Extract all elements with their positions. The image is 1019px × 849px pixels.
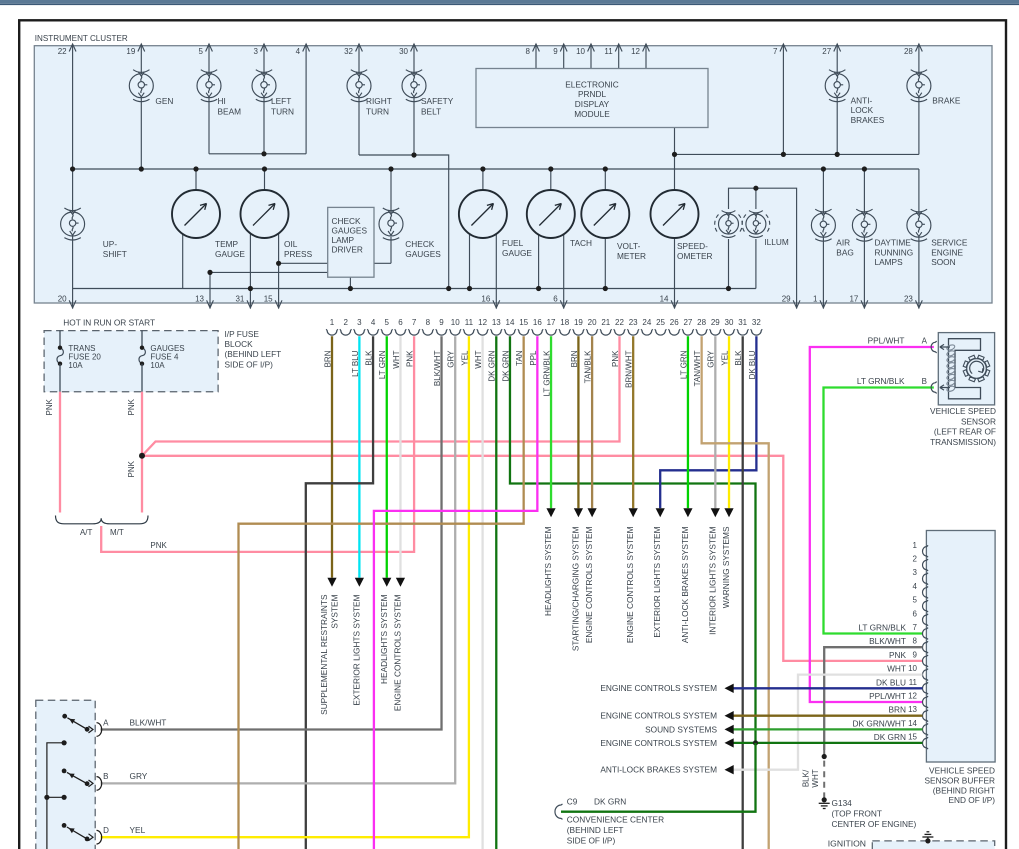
buffer pin 9 arc xyxy=(923,655,929,667)
junction driver / bottom bus xyxy=(348,286,353,291)
svg-text:2: 2 xyxy=(343,318,348,327)
wire PNK from brace to cluster pin 7 xyxy=(101,336,414,552)
connector pin 18 arc xyxy=(559,329,571,335)
connector pin 23 arc xyxy=(627,329,639,335)
buffer pin 8 arc xyxy=(922,641,928,653)
svg-text:EXTERIOR LIGHTS SYSTEM: EXTERIOR LIGHTS SYSTEM xyxy=(652,526,662,637)
wire DK GRN to C9 convenience center xyxy=(561,743,756,812)
svg-text:30: 30 xyxy=(725,318,734,327)
svg-text:B: B xyxy=(103,772,108,781)
cluster bottom pin 15 arrow xyxy=(275,300,282,308)
cluster top pin 32 arrow xyxy=(356,44,363,52)
svg-text:14: 14 xyxy=(660,294,669,303)
wire OIL PRESS to bus and pin31 xyxy=(249,234,251,309)
lamp RIGHT TURN xyxy=(347,70,371,102)
wire WHT pin12 to bottom xyxy=(481,336,483,849)
lamp HI BEAM xyxy=(197,70,221,102)
brace A/T M/T xyxy=(56,516,149,524)
sensor pin B internal arrow xyxy=(940,385,950,390)
svg-text:PPL/WHT: PPL/WHT xyxy=(869,691,906,701)
svg-text:16: 16 xyxy=(533,318,542,327)
wire GAUGES fuse lower xyxy=(141,364,143,392)
wire PNK from GAUGES fuse to M/T brace xyxy=(141,392,143,513)
wire TACH to pin6 xyxy=(563,234,565,309)
svg-text:24: 24 xyxy=(642,318,651,327)
svg-text:19: 19 xyxy=(574,318,583,327)
wire bus to TEMP GAUGE xyxy=(195,169,197,190)
wire ILLUM right lamp bottom xyxy=(755,239,757,289)
svg-text:DRIVER: DRIVER xyxy=(332,245,363,255)
svg-text:3: 3 xyxy=(254,47,259,56)
switch D xyxy=(62,823,67,828)
wire CHECK GAUGES lamp to driver box xyxy=(374,262,391,264)
switch common bus xyxy=(47,743,64,849)
connector pin 6 arc xyxy=(395,329,407,335)
buffer pin 13 arc xyxy=(922,710,928,722)
svg-text:4: 4 xyxy=(371,318,376,327)
box I/P FUSE BLOCK (dashed) xyxy=(44,331,218,392)
svg-text:PRNDL: PRNDL xyxy=(578,89,607,99)
svg-text:SPEED-: SPEED- xyxy=(677,241,708,251)
svg-text:ENGINE CONTROLS SYSTEM: ENGINE CONTROLS SYSTEM xyxy=(584,526,594,643)
cluster bottom pin 1 arrow xyxy=(820,300,827,308)
svg-text:LEFT: LEFT xyxy=(271,96,291,106)
svg-text:2: 2 xyxy=(913,555,918,564)
junction SAFETY BELT wire xyxy=(411,152,416,157)
cluster top pin 11 arrow xyxy=(615,44,622,52)
wire TRANS fuse lower xyxy=(59,364,61,392)
arrow to ENGINE CONTROLS SYSTEM xyxy=(396,578,405,587)
wire BRN pin1 to supplemental restraints xyxy=(331,336,333,578)
svg-text:8: 8 xyxy=(913,637,918,646)
svg-text:12: 12 xyxy=(908,692,917,701)
wire LT GRN/BLK pin17 to headlights system xyxy=(550,336,552,508)
svg-text:28: 28 xyxy=(904,47,913,56)
wire PRNDL pin 10 xyxy=(590,44,592,69)
wire pin28 through BRAKE lamp xyxy=(918,44,920,154)
junction AIR BAG / main bus xyxy=(821,166,826,171)
svg-text:25: 25 xyxy=(656,318,665,327)
gauge SPEEDOMETER xyxy=(651,190,699,238)
wire bus through DAYTIME RUNNING LAMPS to pin17 xyxy=(863,169,865,309)
wire RIGHT TURN / SAFETY BELT join xyxy=(359,155,449,289)
wire BRN/WHT pin23 to engine controls system xyxy=(632,336,634,508)
svg-text:FUEL: FUEL xyxy=(502,238,524,248)
switch A output connector xyxy=(89,726,94,733)
lamp ANTI-LOCK BRAKES xyxy=(825,70,849,102)
vehicle speed sensor gear xyxy=(963,355,990,382)
connector pin 22 arc xyxy=(614,329,626,335)
gauge OIL PRESS xyxy=(241,190,289,238)
wire BLK pin4 down left edge xyxy=(306,336,373,849)
svg-text:HI: HI xyxy=(218,96,226,106)
switch A xyxy=(62,714,67,719)
dashed arcs ILLUM right xyxy=(742,215,746,234)
svg-text:SOON: SOON xyxy=(931,257,955,267)
svg-text:17: 17 xyxy=(849,294,858,303)
wire pin13 to check gauges lamp driver xyxy=(210,271,328,273)
wire FUEL GAUGE to bottom bus xyxy=(469,234,471,289)
svg-text:A/T: A/T xyxy=(80,528,93,537)
gauge FUEL GAUGE xyxy=(459,190,507,238)
sensor pin B arc xyxy=(931,382,937,394)
wire PNK splice to buffer pin 9 xyxy=(142,456,923,661)
svg-text:EXTERIOR LIGHTS SYSTEM: EXTERIOR LIGHTS SYSTEM xyxy=(351,594,361,705)
svg-text:RIGHT: RIGHT xyxy=(366,96,392,106)
svg-text:32: 32 xyxy=(344,47,353,56)
connector pin 32 arc xyxy=(751,329,763,335)
svg-text:ENGINE CONTROLS SYSTEM: ENGINE CONTROLS SYSTEM xyxy=(600,683,717,693)
wire PRNDL output / pin7 / anti-lock / brake join xyxy=(675,153,919,155)
svg-text:23: 23 xyxy=(904,294,913,303)
arrow to HEADLIGHTS SYSTEM xyxy=(546,508,555,517)
svg-text:IGNITION: IGNITION xyxy=(828,838,866,848)
svg-text:PNK: PNK xyxy=(45,398,54,415)
svg-text:19: 19 xyxy=(126,47,135,56)
junction BLK/WHT splice xyxy=(822,754,827,759)
svg-text:8: 8 xyxy=(426,318,431,327)
box IGNITION (dashed) xyxy=(872,841,994,849)
junction VOLT / main bus xyxy=(603,166,608,171)
svg-text:27: 27 xyxy=(683,318,692,327)
buffer pin 1 arc xyxy=(922,545,928,557)
wire CHECK GAUGES lamp lower xyxy=(390,237,392,263)
junction safety-belt branch / bottom bus xyxy=(446,286,451,291)
ground G134 symbol xyxy=(819,803,830,808)
svg-text:BRAKES: BRAKES xyxy=(851,115,885,125)
instrument cluster box xyxy=(34,46,992,303)
wire TACH to bottom bus xyxy=(538,234,540,289)
lamp DAYTIME RUNNING LAMPS xyxy=(852,209,876,241)
svg-text:C9: C9 xyxy=(567,797,578,807)
wire ILLUM left lamp bottom xyxy=(728,239,730,289)
wire pin27 through ANTI-LOCK BRAKES lamp xyxy=(836,44,838,154)
svg-text:18: 18 xyxy=(560,318,569,327)
junction at G134 xyxy=(822,797,827,802)
svg-text:CONVENIENCE CENTER: CONVENIENCE CENTER xyxy=(567,815,664,825)
svg-text:1: 1 xyxy=(330,318,335,327)
svg-text:27: 27 xyxy=(822,47,831,56)
wire bus end through SERVICE ENGINE SOON to pin23 xyxy=(918,169,920,309)
lamp ILLUM left xyxy=(719,211,739,238)
wire LT GRN/BLK sensor B to buffer pin 7 xyxy=(824,388,934,634)
arrow to EXTERIOR LIGHTS SYSTEM xyxy=(656,508,665,517)
wire bus to OIL PRESS xyxy=(264,169,266,190)
connector pin 14 arc xyxy=(504,329,516,335)
junction LEFT TURN / pin4 wire xyxy=(261,151,266,156)
connector pin 15 arc xyxy=(518,329,530,335)
wire VOLTMETER to bottom bus xyxy=(604,238,606,289)
wire GRY pin29 to interior lights system xyxy=(714,336,716,508)
cluster bottom pin 23 arrow xyxy=(916,300,923,308)
svg-text:BLOCK: BLOCK xyxy=(225,339,254,349)
svg-text:10: 10 xyxy=(908,664,917,673)
wire pin3 through LEFT TURN xyxy=(263,44,265,154)
svg-text:DK GRN: DK GRN xyxy=(874,732,906,742)
svg-text:TEMP: TEMP xyxy=(215,239,239,249)
connector pin 5 arc xyxy=(381,329,393,335)
svg-text:1: 1 xyxy=(913,541,918,550)
svg-text:PRESS: PRESS xyxy=(284,249,313,259)
wire main bus xyxy=(73,168,919,170)
wire bus to TACH xyxy=(550,169,552,190)
svg-text:B: B xyxy=(922,377,927,386)
lamp SERVICE ENGINE SOON xyxy=(907,209,931,241)
wire PRNDL pin 11 xyxy=(618,44,620,69)
connector pin 19 arc xyxy=(573,329,585,335)
svg-text:SERVICE: SERVICE xyxy=(931,238,968,248)
junction switch common bus xyxy=(44,795,49,800)
wire TEMP GAUGE to bottom bus xyxy=(182,234,184,289)
svg-text:VEHICLE SPEED: VEHICLE SPEED xyxy=(930,406,996,416)
svg-text:22: 22 xyxy=(58,47,67,56)
vehicle speed sensor coil xyxy=(946,344,955,392)
cluster bottom pin 14 arrow xyxy=(671,300,678,308)
svg-text:PNK: PNK xyxy=(150,541,167,550)
cluster top pin 5 arrow xyxy=(206,44,213,52)
connector pin 11 arc xyxy=(463,329,475,335)
svg-text:LT GRN/BLK: LT GRN/BLK xyxy=(857,376,905,386)
arrow to SOUND SYSTEMS xyxy=(725,725,734,734)
ground symbol (ignition) xyxy=(922,832,933,837)
junction TACH / main bus xyxy=(548,166,553,171)
wire pin5 through HI BEAM xyxy=(208,44,210,154)
box ELECTRONIC PRNDL DISPLAY MODULE xyxy=(476,69,708,128)
junction PNK splice xyxy=(139,453,145,459)
wire DK GRN/WHT buffer pin 14 to sound systems xyxy=(733,728,923,730)
wire OIL PRESS junction to driver box xyxy=(279,262,328,264)
svg-text:PNK: PNK xyxy=(127,398,136,415)
cluster bottom pin 6 arrow xyxy=(560,300,567,308)
box switch block (dashed) xyxy=(36,700,95,849)
svg-text:26: 26 xyxy=(670,318,679,327)
connector pin 25 arc xyxy=(655,329,667,335)
cluster top pin 19 arrow xyxy=(138,44,145,52)
wire LT GRN pin27 to anti-lock brakes system xyxy=(687,336,689,508)
box VEHICLE SPEED SENSOR xyxy=(938,333,994,405)
svg-text:SIDE OF I/P): SIDE OF I/P) xyxy=(225,359,274,369)
cluster top pin 7 arrow xyxy=(780,44,787,52)
svg-text:14: 14 xyxy=(506,318,515,327)
svg-text:GAUGES: GAUGES xyxy=(332,226,368,236)
gauge TEMP GAUGE xyxy=(172,190,220,238)
svg-text:12: 12 xyxy=(478,318,487,327)
wire GRY pin10 to switch B xyxy=(101,336,456,783)
svg-text:DAYTIME: DAYTIME xyxy=(875,238,912,248)
svg-text:DISPLAY: DISPLAY xyxy=(575,99,610,109)
svg-text:VEHICLE SPEED: VEHICLE SPEED xyxy=(929,766,995,776)
cluster bottom pin 16 arrow xyxy=(493,300,500,308)
svg-text:METER: METER xyxy=(617,251,646,261)
svg-text:SUPPLEMENTAL RESTRAINTS: SUPPLEMENTAL RESTRAINTS xyxy=(319,594,329,715)
connector pin 20 arc xyxy=(586,329,598,335)
connector pin 7 arc xyxy=(408,329,420,335)
fuse TRANS FUSE 20 10A xyxy=(57,348,63,364)
svg-text:5: 5 xyxy=(385,318,390,327)
svg-text:RUNNING: RUNNING xyxy=(875,247,914,257)
svg-text:15: 15 xyxy=(264,294,273,303)
svg-text:(LEFT REAR OF: (LEFT REAR OF xyxy=(934,427,996,437)
arrow to ENGINE CONTROLS SYSTEM (pin15) xyxy=(725,738,734,747)
title bar (top) xyxy=(0,0,1019,4)
connector pin 26 arc xyxy=(668,329,680,335)
lamp UP-SHIFT xyxy=(61,208,85,240)
svg-text:13: 13 xyxy=(908,705,917,714)
wire PRNDL bottom through SPEEDOMETER to pin14 xyxy=(674,128,676,309)
svg-text:20: 20 xyxy=(588,318,597,327)
arrow to STARTING/CHARGING SYSTEM xyxy=(574,508,583,517)
svg-text:GAUGE: GAUGE xyxy=(502,248,532,258)
wire YEL pin30 to warning systems xyxy=(728,336,730,508)
svg-text:BLK/WHT: BLK/WHT xyxy=(130,717,167,727)
wire BLK/WHT dashed to ground xyxy=(823,750,825,800)
wire LT GRN pin5 to headlights xyxy=(386,336,388,578)
connector pin 16 arc xyxy=(532,329,544,335)
svg-text:5: 5 xyxy=(199,47,204,56)
vehicle speed sensor C-bracket xyxy=(949,339,981,399)
junction OIL / driver wire xyxy=(276,261,281,266)
svg-text:7: 7 xyxy=(913,623,918,632)
svg-text:4: 4 xyxy=(913,582,918,591)
connector pin 2 arc xyxy=(340,329,352,335)
wire ILLUM right lamp top xyxy=(755,188,757,209)
svg-text:GRY: GRY xyxy=(130,771,148,781)
svg-text:YEL: YEL xyxy=(130,825,146,835)
svg-text:29: 29 xyxy=(782,294,791,303)
cluster bottom pin 31 arrow xyxy=(247,300,254,308)
svg-text:LAMPS: LAMPS xyxy=(875,257,904,267)
svg-text:10A: 10A xyxy=(68,361,83,370)
svg-text:SOUND SYSTEMS: SOUND SYSTEMS xyxy=(645,724,717,734)
cluster top pin 3 arrow xyxy=(261,44,268,52)
wire PRNDL pin 9 xyxy=(563,44,565,69)
svg-text:ELECTRONIC: ELECTRONIC xyxy=(565,79,618,89)
connector pin 27 arc xyxy=(682,329,694,335)
svg-text:11: 11 xyxy=(465,318,474,327)
arrow to ANTI-LOCK BRAKES SYSTEM xyxy=(683,508,692,517)
svg-text:LT GRN/BLK: LT GRN/BLK xyxy=(858,623,906,633)
svg-text:15: 15 xyxy=(908,733,917,742)
junction OIL / main bus xyxy=(262,166,267,171)
svg-text:21: 21 xyxy=(601,318,610,327)
svg-text:23: 23 xyxy=(629,318,638,327)
wire DK BLU buffer pin 11 to engine controls xyxy=(733,687,923,689)
cluster top pin 9 arrow xyxy=(560,44,567,52)
svg-text:9: 9 xyxy=(553,47,558,56)
wire PRNDL pin 8 xyxy=(535,44,537,69)
buffer pin 6 arc xyxy=(922,614,928,626)
svg-text:CENTER OF ENGINE): CENTER OF ENGINE) xyxy=(832,819,917,829)
arrow to ENGINE CONTROLS SYSTEM xyxy=(588,508,597,517)
svg-text:SENSOR BUFFER: SENSOR BUFFER xyxy=(924,775,995,785)
junction GEN / main bus xyxy=(139,166,144,171)
svg-text:HEADLIGHTS SYSTEM: HEADLIGHTS SYSTEM xyxy=(379,594,389,684)
wire ignition ground stub xyxy=(927,837,929,841)
connector pin 28 arc xyxy=(696,329,708,335)
svg-text:A: A xyxy=(922,336,928,345)
wire pin4 vertical xyxy=(305,44,307,154)
svg-text:SHIFT: SHIFT xyxy=(103,249,127,259)
svg-text:SAFETY: SAFETY xyxy=(421,96,454,106)
wire BRN pin19 to starting/charging system xyxy=(577,336,579,508)
svg-text:31: 31 xyxy=(738,318,747,327)
cluster bottom pin 13 arrow xyxy=(207,300,214,308)
wire to TRANS fuse xyxy=(59,331,61,348)
svg-text:A: A xyxy=(103,718,109,727)
arrow to ANTI-LOCK BRAKES SYSTEM (left) xyxy=(725,765,734,774)
arrow to ENGINE CONTROLS SYSTEM xyxy=(629,508,638,517)
cluster top pin 27 arrow xyxy=(834,44,841,52)
svg-text:TACH: TACH xyxy=(570,238,592,248)
wire pin22 to UP-SHIFT to pin20 xyxy=(72,44,74,309)
svg-text:PPL/WHT: PPL/WHT xyxy=(868,335,905,345)
sensor pin A arc xyxy=(931,341,937,353)
buffer pin 14 arc xyxy=(923,724,929,736)
svg-text:ANTI-LOCK BRAKES SYSTEM: ANTI-LOCK BRAKES SYSTEM xyxy=(680,526,690,643)
wire FUEL GAUGE to pin16 xyxy=(495,234,497,309)
arrow to HEADLIGHTS SYSTEM xyxy=(382,578,391,587)
svg-text:ANTI-: ANTI- xyxy=(851,95,873,105)
svg-text:GAUGE: GAUGE xyxy=(215,249,245,259)
junction pin22 wire / main bus xyxy=(70,166,75,171)
wire HI BEAM / LEFT TURN / pin4 join xyxy=(209,153,306,155)
cluster top pin 10 arrow xyxy=(588,44,595,52)
wire BLK/WHT pin9 to switch A xyxy=(101,336,442,729)
lamp SAFETY BELT xyxy=(402,70,426,102)
connector pin 4 arc xyxy=(367,329,379,335)
wire DK GRN pin14 to buffer splice xyxy=(510,336,756,743)
svg-text:HEADLIGHTS SYSTEM: HEADLIGHTS SYSTEM xyxy=(543,526,553,616)
wire PPL pin16 to bottom xyxy=(374,336,537,849)
svg-text:(TOP FRONT: (TOP FRONT xyxy=(832,808,882,818)
svg-text:ENGINE: ENGINE xyxy=(931,247,963,257)
junction CHECK GAUGES lamp / main bus xyxy=(388,166,393,171)
svg-text:13: 13 xyxy=(195,294,204,303)
buffer pin 7 arc xyxy=(922,628,928,640)
svg-text:10A: 10A xyxy=(150,361,165,370)
svg-text:3: 3 xyxy=(357,318,362,327)
wire TAN pin15 to bottom xyxy=(239,336,524,849)
buffer pin 5 arc xyxy=(923,600,929,612)
svg-text:WARNING SYSTEMS: WARNING SYSTEMS xyxy=(721,526,731,608)
svg-text:I/P FUSE: I/P FUSE xyxy=(225,329,260,339)
wire bus to VOLTMETER xyxy=(604,169,606,190)
connector pin 3 arc xyxy=(354,329,366,335)
svg-text:7: 7 xyxy=(412,318,417,327)
svg-text:PNK: PNK xyxy=(889,650,907,660)
junction pin13 / driver wire xyxy=(207,270,212,275)
svg-text:DK GRN/WHT: DK GRN/WHT xyxy=(853,718,906,728)
connector pin 10 arc xyxy=(449,329,461,335)
svg-text:WHT: WHT xyxy=(811,769,820,787)
wire TAN/WHT pin28 to bottom xyxy=(702,336,769,849)
wire PNK from TRANS fuse to A/T brace xyxy=(59,392,61,513)
wire bus to FUEL GAUGE xyxy=(482,169,484,190)
svg-text:ILLUM: ILLUM xyxy=(764,237,789,247)
svg-text:BAG: BAG xyxy=(836,247,854,257)
svg-text:DK BLU: DK BLU xyxy=(876,677,906,687)
lamp LEFT TURN xyxy=(252,70,276,102)
svg-text:SIDE OF I/P): SIDE OF I/P) xyxy=(567,835,616,845)
connector pin 12 arc xyxy=(477,329,489,335)
sensor pin A internal arrow xyxy=(940,344,950,349)
svg-text:BRAKE: BRAKE xyxy=(932,95,961,105)
wire pin30 through SAFETY BELT xyxy=(413,44,415,155)
svg-text:PNK: PNK xyxy=(406,350,415,367)
junction ILLUM top xyxy=(753,186,758,191)
junction TACH / bottom bus xyxy=(536,286,541,291)
junction DK GRN splice xyxy=(753,740,758,745)
